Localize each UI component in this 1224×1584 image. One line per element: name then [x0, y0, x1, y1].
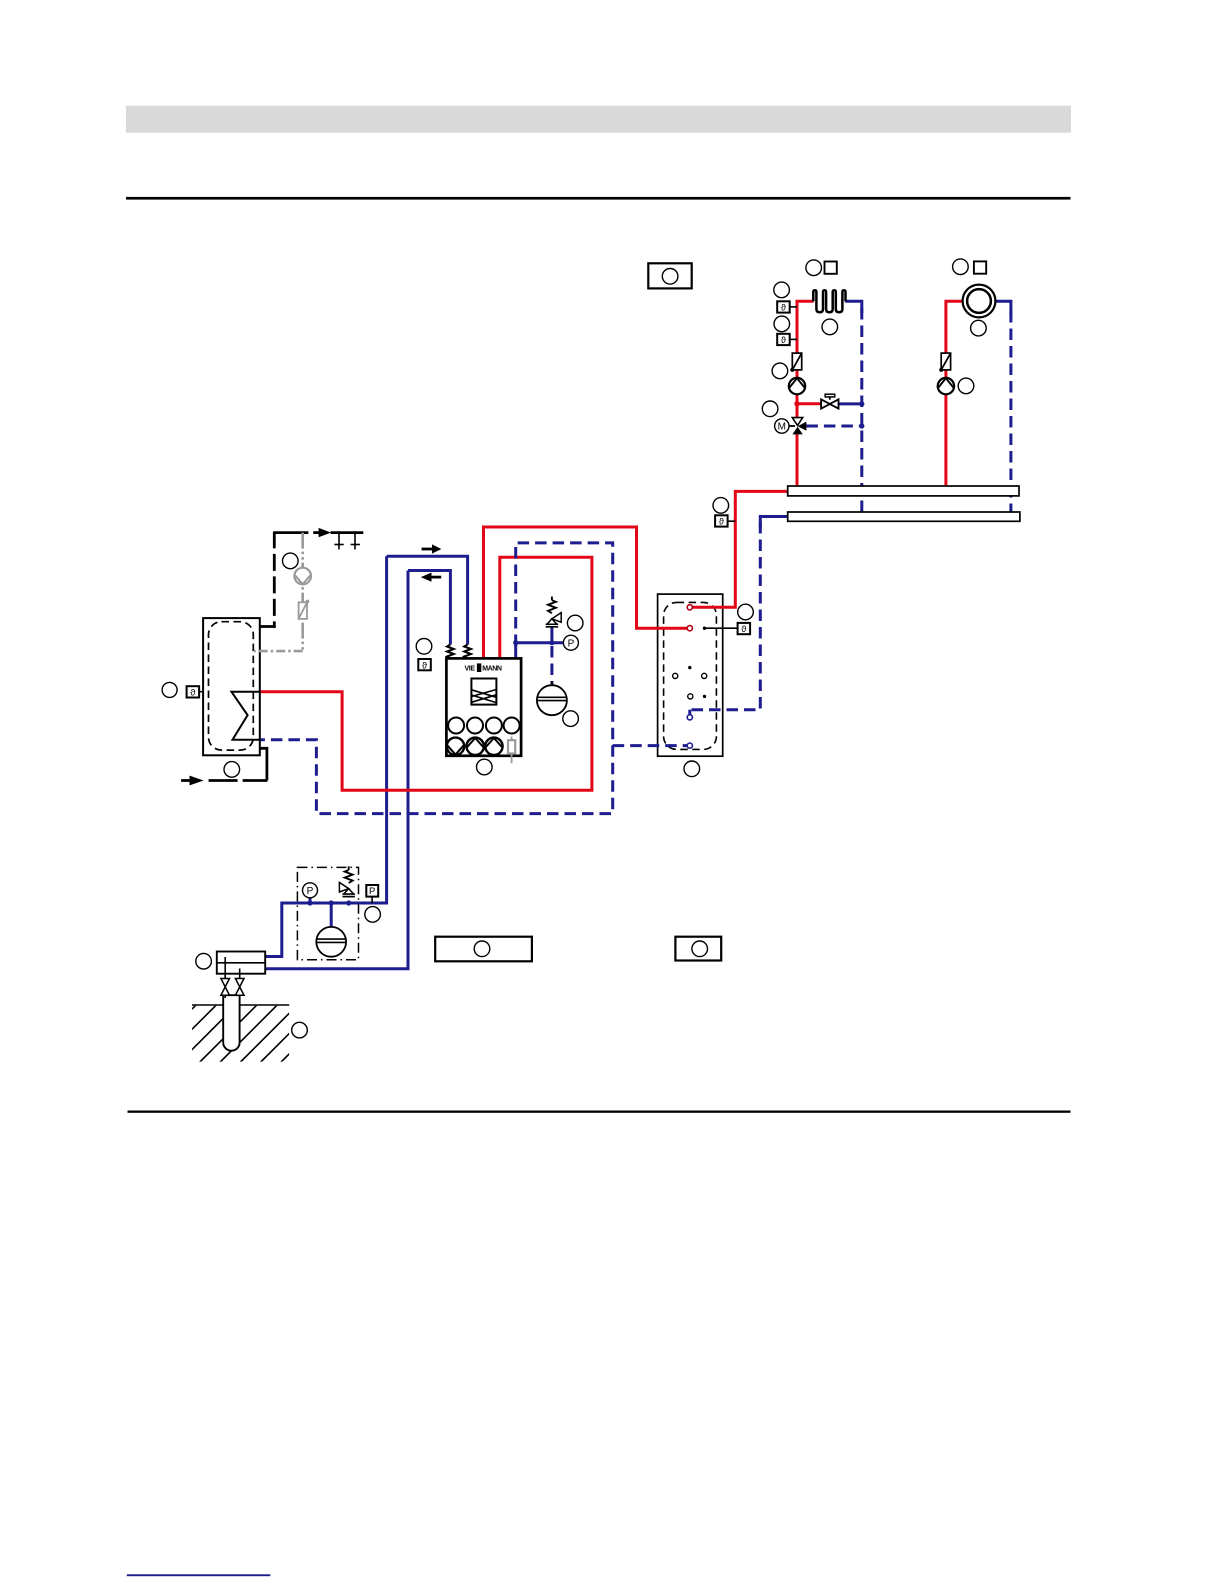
- svg-text:VIE: VIE: [465, 665, 476, 672]
- svg-text:P: P: [568, 638, 575, 649]
- svg-text:M: M: [778, 422, 786, 433]
- svg-text:P: P: [307, 886, 314, 897]
- svg-text:MANN: MANN: [482, 665, 502, 672]
- svg-text:P: P: [369, 886, 375, 897]
